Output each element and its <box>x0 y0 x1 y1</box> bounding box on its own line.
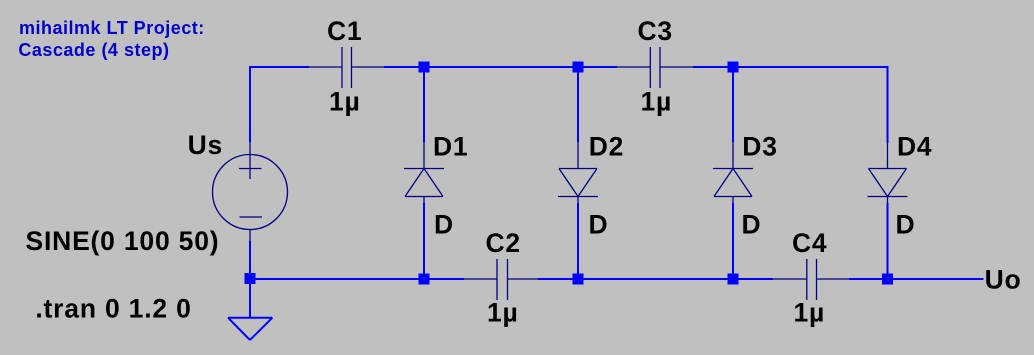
svg-text:C1: C1 <box>327 16 362 46</box>
svg-text:D: D <box>589 210 609 240</box>
junction node bottom D4 <box>882 274 893 285</box>
junction node bottom D1 <box>419 274 430 285</box>
wire top rail left segment <box>250 67 309 142</box>
svg-text:D: D <box>742 210 762 240</box>
junction node top D3 <box>728 62 739 73</box>
capacitor C1 <box>309 47 384 88</box>
diode D4 <box>868 143 908 203</box>
wire top rail middle segment <box>384 66 617 68</box>
capacitor C4 <box>773 259 849 300</box>
wire D3 bottom <box>732 203 734 279</box>
svg-text:Cascade (4 step): Cascade (4 step) <box>18 40 169 60</box>
svg-text:SINE(0 100 50): SINE(0 100 50) <box>26 226 220 256</box>
svg-text:D3: D3 <box>742 132 777 162</box>
svg-text:Uo: Uo <box>985 265 1022 295</box>
wire bottom rail right segment to output <box>849 278 984 280</box>
junction node bottom D2 <box>573 274 584 285</box>
svg-text:C2: C2 <box>486 228 521 258</box>
svg-text:D: D <box>434 210 454 240</box>
svg-text:1µ: 1µ <box>329 87 361 117</box>
wire source bottom to ground <box>249 241 251 317</box>
svg-text:D2: D2 <box>589 132 624 162</box>
diode D1 <box>404 142 444 203</box>
ground <box>228 318 272 340</box>
wire bottom rail middle segment <box>538 278 773 280</box>
svg-text:mihailmk LT Project:: mihailmk LT Project: <box>19 18 205 38</box>
capacitor C2 <box>464 259 538 300</box>
wire D4 bottom <box>887 203 889 279</box>
svg-text:1µ: 1µ <box>794 298 826 328</box>
svg-text:D1: D1 <box>433 132 468 162</box>
wire bottom rail left segment <box>250 278 464 280</box>
wire top rail right segment <box>693 67 888 143</box>
svg-text:.tran 0 1.2 0: .tran 0 1.2 0 <box>35 293 191 323</box>
wire D3 top <box>732 67 734 142</box>
capacitor C3 <box>617 47 693 88</box>
junction node top D2 <box>573 62 584 73</box>
junction node source bottom <box>245 273 256 284</box>
svg-text:D: D <box>896 210 916 240</box>
svg-text:Us: Us <box>188 130 223 160</box>
wire D2 bottom <box>577 203 579 279</box>
svg-text:D4: D4 <box>897 132 932 162</box>
wire D1 bottom <box>423 203 425 279</box>
svg-text:C3: C3 <box>638 16 673 46</box>
diode D2 <box>558 142 598 203</box>
wire D2 top <box>577 67 579 142</box>
svg-text:1µ: 1µ <box>487 298 519 328</box>
diode D3 <box>713 142 753 203</box>
wire D1 top <box>423 67 425 142</box>
junction node top D1 <box>419 62 430 73</box>
svg-text:C4: C4 <box>792 228 827 258</box>
svg-text:1µ: 1µ <box>641 87 673 117</box>
junction node bottom D3 <box>728 274 739 285</box>
voltage source Us <box>213 142 288 241</box>
